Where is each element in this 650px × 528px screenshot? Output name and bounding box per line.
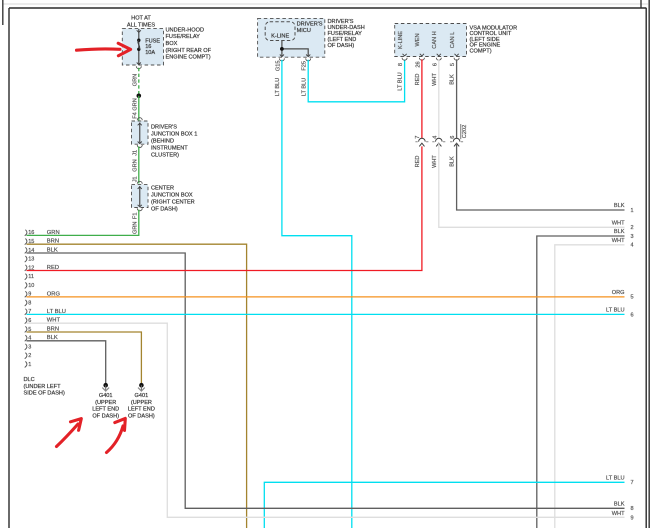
under-hood fuse/relay box xyxy=(122,29,163,65)
label WHT pin 4 xyxy=(612,238,634,249)
label LT BLU pin 7 xyxy=(606,476,634,487)
svg-text:WHT: WHT xyxy=(612,221,625,227)
svg-text:LT BLU: LT BLU xyxy=(606,476,624,482)
svg-text:BLK: BLK xyxy=(614,203,625,209)
DLC pin 3 terminal xyxy=(25,344,32,351)
wire BLK VSA to C202 xyxy=(456,59,458,138)
label LT BLU (VSA K-line) xyxy=(398,72,404,90)
svg-text:F1: F1 xyxy=(133,213,139,220)
DLC pin 7 terminal xyxy=(25,309,66,316)
svg-text:MICU: MICU xyxy=(297,28,311,34)
K-LINE module box (MICU) xyxy=(265,22,295,41)
svg-text:UNDER-HOOD: UNDER-HOOD xyxy=(166,27,205,33)
svg-text:3: 3 xyxy=(631,234,634,240)
svg-text:J1: J1 xyxy=(133,176,139,182)
VSA box exit arrows xyxy=(402,54,459,60)
wire BLK DLC 4 to ground xyxy=(27,341,106,383)
svg-text:5: 5 xyxy=(450,63,456,66)
svg-text:4: 4 xyxy=(631,243,634,249)
svg-text:INSTRUMENT: INSTRUMENT xyxy=(151,146,188,152)
svg-text:10A: 10A xyxy=(145,50,155,56)
wire ORG DLC 9 to pin 5 xyxy=(27,296,625,298)
DLC pin 15 terminal xyxy=(25,239,59,246)
label LT BLU pin 6 xyxy=(606,308,634,319)
svg-text:(BEHIND: (BEHIND xyxy=(151,139,174,145)
driver's under-dash fuse/relay box xyxy=(258,18,325,57)
wire GRN dashed fuse to splice xyxy=(138,68,140,96)
svg-text:HOT AT: HOT AT xyxy=(131,16,151,22)
svg-text:CAN H: CAN H xyxy=(432,31,438,48)
label WHT (VSA) xyxy=(432,73,438,86)
svg-text:WHT: WHT xyxy=(612,511,625,517)
svg-text:1: 1 xyxy=(28,362,31,368)
node MICU splice xyxy=(280,47,284,51)
svg-text:DRIVER'S: DRIVER'S xyxy=(151,124,177,130)
svg-text:(UNDER LEFT: (UNDER LEFT xyxy=(24,384,62,390)
label LT BLU (G15 wire) xyxy=(275,78,281,96)
wire LT BLU DLC 7 to pin 6 xyxy=(27,313,625,315)
svg-text:8: 8 xyxy=(28,300,31,306)
pin label F25 xyxy=(302,61,308,71)
pin number 5 (CAN L) xyxy=(450,63,456,66)
exit arrows driver's box xyxy=(279,55,310,61)
wire BRN DLC 5 to ground xyxy=(27,332,142,383)
pin label G15 xyxy=(275,61,281,72)
svg-text:J1: J1 xyxy=(133,150,139,156)
svg-text:WHT: WHT xyxy=(432,73,438,86)
connector C202 on RED wire xyxy=(415,136,428,147)
svg-text:11: 11 xyxy=(28,274,34,280)
DLC pin 10 terminal xyxy=(25,282,35,289)
svg-text:K-LINE: K-LINE xyxy=(398,31,404,49)
svg-text:G401: G401 xyxy=(99,393,113,399)
svg-text:JUNCTION BOX 1: JUNCTION BOX 1 xyxy=(151,131,197,137)
pin number 6 (CAN H) xyxy=(432,63,438,66)
label GRN (lower segment) xyxy=(133,222,139,234)
label WHT below C202 xyxy=(432,155,438,168)
svg-text:OF DASH): OF DASH) xyxy=(92,413,119,419)
wire BRN DLC 15 xyxy=(27,244,247,528)
svg-text:4: 4 xyxy=(432,136,438,139)
svg-text:1: 1 xyxy=(631,208,634,214)
svg-text:OF DASH): OF DASH) xyxy=(151,207,178,213)
fuse box exit arrow xyxy=(136,63,141,69)
DLC pin 1 terminal xyxy=(25,361,32,368)
wire WHT to pin 2 xyxy=(439,143,625,227)
svg-text:G401: G401 xyxy=(135,393,149,399)
label DRIVER'S MICU xyxy=(297,22,323,34)
DLC pin 13 terminal xyxy=(25,256,35,263)
label under-hood box location xyxy=(166,27,212,60)
DLC pin 2 terminal xyxy=(25,353,32,360)
ground G401 (left) xyxy=(92,383,119,419)
label BLK pin 8 xyxy=(614,502,634,513)
wire BLK to pin 1 xyxy=(457,143,625,210)
svg-text:CAN L: CAN L xyxy=(450,32,456,48)
svg-text:ENGINE COMPT): ENGINE COMPT) xyxy=(166,55,211,61)
pin label CAN L xyxy=(450,32,456,48)
wire LT BLU to pin 7 xyxy=(264,482,624,528)
svg-text:2: 2 xyxy=(631,225,634,231)
svg-text:C202: C202 xyxy=(462,125,468,138)
label DLC location xyxy=(24,377,65,397)
fuse F16 symbol xyxy=(137,39,140,52)
splice node xyxy=(137,94,142,99)
DLC pin 14 terminal xyxy=(25,247,58,254)
svg-text:LEFT END: LEFT END xyxy=(128,407,155,413)
pin label WEN xyxy=(415,33,421,46)
svg-text:10: 10 xyxy=(28,283,34,289)
svg-text:6: 6 xyxy=(631,312,634,318)
svg-text:GRN: GRN xyxy=(133,159,139,171)
wire RED VSA to C202 xyxy=(421,59,423,138)
svg-text:WHT: WHT xyxy=(612,238,625,244)
label F4 GRN xyxy=(133,98,139,119)
svg-text:CLUSTER): CLUSTER) xyxy=(151,153,179,159)
svg-text:LT BLU: LT BLU xyxy=(398,72,404,90)
red annotation arrow 1 xyxy=(77,43,131,56)
svg-text:26: 26 xyxy=(415,61,421,67)
wire MICU internal xyxy=(282,41,308,56)
svg-text:FUSE/RELAY: FUSE/RELAY xyxy=(166,34,201,40)
svg-text:DLC: DLC xyxy=(24,377,35,383)
label driver's junction box 1 xyxy=(151,124,197,158)
svg-text:(RIGHT CENTER: (RIGHT CENTER xyxy=(151,200,195,206)
label center junction box xyxy=(151,185,195,212)
label BLK below C202 xyxy=(450,156,456,167)
label WHT pin 2 xyxy=(612,221,634,232)
wire GRN junction box to DLC pin 16 xyxy=(27,210,139,236)
svg-text:OF DASH): OF DASH) xyxy=(128,413,155,419)
label GRN (fuse segment) xyxy=(133,74,139,86)
VSA modulator control unit box xyxy=(395,24,467,57)
DLC pin 16 terminal xyxy=(25,230,60,237)
svg-text:16: 16 xyxy=(28,230,34,236)
wire RED DLC 12 to VSA xyxy=(27,146,422,270)
svg-text:LT BLU: LT BLU xyxy=(275,78,281,96)
driver's junction box 1 xyxy=(132,118,149,148)
entry arrow into fuse box xyxy=(137,30,141,32)
wire fuse internal xyxy=(138,29,140,65)
wire LT BLU F25 to VSA xyxy=(308,60,404,102)
svg-text:8: 8 xyxy=(398,63,404,66)
svg-text:13: 13 xyxy=(28,257,34,263)
label driver's under-dash box location xyxy=(328,19,365,49)
red annotation arrow 2 xyxy=(57,419,82,447)
svg-text:9: 9 xyxy=(631,515,634,521)
svg-text:5: 5 xyxy=(631,295,634,301)
label HOT AT ALL TIMES xyxy=(127,16,156,29)
svg-text:COMPT): COMPT) xyxy=(470,49,492,55)
label J1 (entry) xyxy=(133,176,139,182)
connector C202 on WHT wire xyxy=(432,136,445,147)
svg-text:CENTER: CENTER xyxy=(151,185,174,191)
svg-text:RED: RED xyxy=(415,74,421,86)
svg-text:BLK: BLK xyxy=(450,156,456,167)
pin label K-LINE xyxy=(398,31,404,49)
label RED (VSA) xyxy=(415,74,421,86)
svg-text:SIDE OF DASH): SIDE OF DASH) xyxy=(24,391,65,397)
svg-text:8: 8 xyxy=(631,506,634,512)
label GRN (mid segment) xyxy=(133,159,139,171)
wire GRN splice to junction box xyxy=(138,96,140,121)
label VSA modulator location xyxy=(470,25,518,54)
pin label CAN H xyxy=(432,31,438,48)
wire BLK to pin 3 xyxy=(537,236,625,528)
svg-text:RED: RED xyxy=(415,156,421,168)
svg-text:BLK: BLK xyxy=(450,74,456,85)
svg-text:OF DASH): OF DASH) xyxy=(328,43,355,49)
svg-text:GRN: GRN xyxy=(47,230,60,236)
svg-text:JUNCTION BOX: JUNCTION BOX xyxy=(151,193,193,199)
svg-text:GRN: GRN xyxy=(133,74,139,86)
label J1 (exit) xyxy=(133,150,139,156)
label C202 xyxy=(461,124,468,139)
pin number 26 xyxy=(415,61,421,67)
svg-text:BLK: BLK xyxy=(614,502,625,508)
svg-text:GRN: GRN xyxy=(133,222,139,234)
svg-text:F4 GRN: F4 GRN xyxy=(133,98,139,119)
ground G401 (right) xyxy=(128,383,155,419)
center junction box xyxy=(132,181,149,210)
wire WHT to pin 4 xyxy=(555,245,625,528)
label BLK (VSA) xyxy=(450,74,456,85)
fuse value label FUSE 16 10A xyxy=(145,38,160,56)
svg-text:(UPPER: (UPPER xyxy=(95,400,116,406)
svg-text:LT BLU: LT BLU xyxy=(606,308,624,314)
svg-text:2: 2 xyxy=(28,353,31,359)
label BLK pin 3 xyxy=(614,229,634,240)
svg-text:BLK: BLK xyxy=(614,229,625,235)
label F1 xyxy=(133,213,139,220)
connector C202 on BLK wire xyxy=(450,136,463,147)
red annotation arrow 3 xyxy=(107,418,126,452)
svg-text:DRIVER'S: DRIVER'S xyxy=(297,22,323,28)
DLC pin 6 terminal xyxy=(25,318,61,325)
svg-text:7: 7 xyxy=(415,136,421,139)
wire LT BLU K-line G15 xyxy=(282,60,352,528)
svg-text:ALL TIMES: ALL TIMES xyxy=(127,22,156,28)
svg-text:3: 3 xyxy=(28,344,31,350)
label ORG pin 5 xyxy=(612,290,634,301)
svg-text:BOX: BOX xyxy=(166,41,178,47)
DLC pin 4 terminal xyxy=(25,335,58,342)
svg-text:(RIGHT REAR OF: (RIGHT REAR OF xyxy=(166,48,212,54)
svg-text:7: 7 xyxy=(631,480,634,486)
wire GRN between junction boxes xyxy=(138,146,140,183)
svg-text:F25: F25 xyxy=(302,61,308,71)
DLC pin 5 terminal xyxy=(25,326,59,333)
pin number 8 xyxy=(398,63,404,66)
svg-text:ORG: ORG xyxy=(612,290,625,296)
svg-text:K-LINE: K-LINE xyxy=(271,34,289,40)
wire WHT DLC 6 to pin 9 xyxy=(27,323,625,517)
DLC pin 11 terminal xyxy=(25,274,34,281)
label BLK pin 1 xyxy=(614,203,634,214)
svg-text:WEN: WEN xyxy=(415,33,421,46)
wire BLK DLC 14 to pin 8 xyxy=(27,253,625,508)
DLC pin 9 terminal xyxy=(25,291,61,298)
svg-text:LEFT END: LEFT END xyxy=(92,407,119,413)
svg-text:LT BLU: LT BLU xyxy=(301,78,307,96)
svg-text:G15: G15 xyxy=(275,61,281,72)
label LT BLU (F25 wire) xyxy=(301,78,307,96)
label RED below C202 xyxy=(415,156,421,168)
svg-text:6: 6 xyxy=(432,63,438,66)
svg-text:(UPPER: (UPPER xyxy=(131,400,152,406)
wire WHT VSA to C202 xyxy=(438,59,440,138)
svg-text:WHT: WHT xyxy=(432,155,438,168)
svg-text:6: 6 xyxy=(450,136,456,139)
DLC pin 12 terminal xyxy=(25,265,59,272)
label WHT pin 9 xyxy=(612,511,634,522)
DLC pin 8 terminal xyxy=(25,300,32,307)
